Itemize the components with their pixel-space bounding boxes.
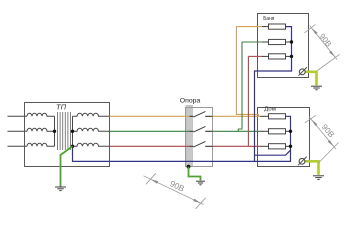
house box Dom	[258, 108, 310, 167]
switch contacts phase C	[190, 145, 213, 147]
ground wire at TP	[61, 146, 73, 186]
switch contacts phase A	[190, 115, 213, 117]
switch contacts phase B	[190, 130, 213, 132]
wire neutral blue riser to Banya	[255, 27, 292, 162]
wire phase C red pole to Dom and riser to Banya	[213, 56, 261, 146]
resistor Banya R2	[269, 39, 286, 44]
ground symbol TP	[55, 187, 66, 191]
wire phase A yellow TP to pole	[110, 115, 190, 117]
wire phase B green TP to pole	[110, 130, 190, 132]
wire neutral feed to Dom bus	[255, 116, 291, 155]
wire phase C red TP to pole	[110, 145, 190, 147]
node secondary star mid	[71, 130, 74, 133]
primary coil L3	[27, 143, 55, 146]
svg-text:Дом: Дом	[264, 106, 276, 112]
secondary coil L4	[73, 113, 110, 116]
transformer core	[58, 112, 71, 150]
node Dom bus R2	[289, 130, 292, 133]
ground wire at pole	[189, 167, 201, 181]
secondary coil L5	[73, 128, 110, 131]
secondary neutral bus	[72, 116, 74, 146]
svg-text:90В: 90В	[317, 32, 333, 49]
Banya resistor leads	[262, 27, 292, 57]
break symbol Dom	[299, 158, 305, 164]
node Dom bus R3	[289, 145, 292, 148]
node secondary neutral bottom	[71, 145, 74, 148]
primary coil L1	[27, 113, 55, 116]
svg-text:90В: 90В	[320, 123, 336, 140]
dimension 90V pole	[144, 173, 206, 209]
svg-text:ТП: ТП	[56, 102, 67, 111]
wire phase B green pole to Dom and riser to Banya	[213, 42, 261, 131]
break symbol Banya	[299, 69, 305, 75]
house box Banya	[258, 14, 309, 78]
node Banya bus R3	[290, 55, 293, 58]
earth wire Dom	[305, 161, 319, 175]
resistor Dom R2	[269, 129, 286, 134]
secondary coil L6	[73, 143, 110, 146]
switch blade phase C	[193, 141, 205, 147]
ground symbol Banya	[311, 86, 322, 90]
primary input lines	[8, 116, 28, 146]
earth wire Banya	[305, 72, 316, 86]
resistor Dom R1	[269, 114, 286, 119]
ground symbol pole	[196, 181, 205, 185]
ground symbol Dom	[313, 176, 324, 180]
switch blade phase B	[193, 126, 205, 132]
dimension 90V Dom	[305, 115, 339, 163]
node primary star point	[53, 130, 56, 133]
resistor Dom R3	[269, 144, 286, 149]
pole body	[186, 105, 192, 166]
wire phase A yellow pole to Dom and riser to Banya	[213, 27, 261, 117]
svg-text:Баня: Баня	[263, 16, 274, 22]
transformer box TP	[25, 103, 110, 167]
svg-text:90В: 90В	[168, 178, 186, 194]
switch box at pole	[186, 108, 213, 167]
wire neutral blue TP to Dom bus	[73, 146, 291, 161]
resistor Banya R1	[269, 24, 286, 29]
resistor Banya R3	[269, 54, 286, 59]
primary neutral bus	[54, 116, 56, 146]
switch blade phase A	[193, 111, 205, 117]
svg-text:Опора: Опора	[180, 98, 201, 105]
dimension 90V Banya	[305, 24, 340, 70]
Dom resistor leads	[260, 116, 291, 146]
primary coil L2	[27, 128, 55, 131]
node pole ground tap	[187, 165, 191, 169]
node Banya bus R2	[290, 40, 293, 43]
